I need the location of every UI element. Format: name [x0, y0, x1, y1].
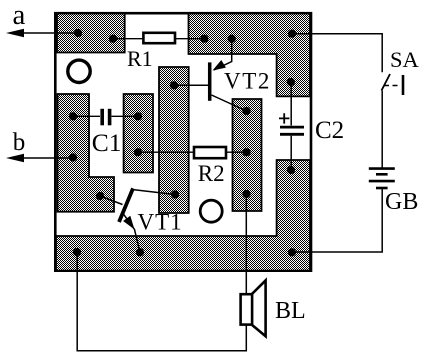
svg-text:C2: C2: [315, 117, 344, 144]
svg-text:GB: GB: [385, 189, 418, 215]
mounting hole lower-center: [200, 200, 222, 222]
wire VT2 collector lead: [212, 95, 247, 111]
arrowhead terminal b: [6, 154, 24, 163]
wire VT2 base lead: [174, 84, 208, 86]
svg-text:b: b: [13, 129, 26, 156]
junction ground pad left: [73, 248, 81, 256]
copper pad: top-left (node a net): [57, 14, 125, 53]
wire C1 left lead: [73, 115, 100, 117]
wire VT1 emitter lead: [122, 212, 140, 253]
wire VT2 emitter lead: [214, 39, 232, 70]
wire board to switch SA: [292, 34, 382, 73]
circuit board outline: [55, 13, 311, 271]
copper pad: left L (node b / C1 left / VT1 base net): [58, 94, 115, 212]
switch SA actuator bar: [402, 75, 405, 95]
battery GB short plate 1: [376, 173, 388, 176]
svg-text:BL: BL: [275, 298, 306, 324]
wire R1 right lead: [175, 38, 204, 40]
junction C2 bottom: [287, 166, 295, 174]
battery GB long plate 1: [369, 167, 395, 170]
wire C2 bottom lead: [290, 136, 292, 170]
junction R1 left: [109, 35, 117, 43]
svg-text:C1: C1: [92, 128, 122, 157]
junction VT2 emitter: [228, 35, 236, 43]
junction C2 top: [287, 78, 295, 86]
transistor VT1 base bar: [119, 188, 133, 222]
wire R2 left lead: [138, 151, 194, 153]
copper pad: C1 right column: [124, 94, 153, 173]
capacitor C2 bottom plate: [280, 133, 304, 136]
resistor R2: [194, 147, 226, 158]
arrowhead VT2 emitter (PNP): [213, 60, 226, 71]
svg-text:VT1: VT1: [138, 210, 183, 235]
mounting hole upper-left: [68, 60, 90, 82]
switch SA blade: [382, 74, 391, 91]
wire VT1 collector lead: [132, 190, 175, 195]
junction node a pad: [74, 29, 82, 37]
arrowhead VT1 emitter (PNP): [123, 216, 134, 230]
junction battery GB return: [288, 248, 296, 256]
arrowhead terminal a: [6, 29, 24, 38]
copper pad: top-right L (supply net to SA): [189, 14, 311, 97]
junction C1 right: [134, 112, 142, 120]
junction R2 left net: [134, 148, 142, 156]
capacitor C2 top plate: [280, 126, 304, 129]
polarity plus sign of C2: [279, 113, 289, 123]
capacitor C1 right plate: [108, 109, 112, 126]
wire SA to battery GB: [381, 91, 383, 168]
battery GB short plate 2: [376, 187, 388, 190]
switch SA dashed link: [384, 85, 400, 87]
svg-text:R1: R1: [127, 46, 153, 71]
junction VT2 collector: [242, 107, 250, 115]
svg-text:VT2: VT2: [224, 69, 271, 94]
junction node b pad: [69, 153, 77, 161]
speaker BL cone: [252, 280, 266, 336]
wire C1 right lead: [112, 115, 139, 117]
junction R1 right: [200, 35, 208, 43]
junction VT1 base: [96, 192, 104, 200]
junction R2 right: [242, 148, 250, 156]
battery GB long plate 2: [369, 180, 395, 183]
wire terminal a: [22, 32, 78, 34]
wire battery GB to board: [292, 189, 382, 252]
wire board to speaker BL: [245, 194, 247, 294]
junction VT1 emitter: [136, 248, 144, 256]
junction SA wire: [288, 30, 296, 38]
wire speaker BL return to board: [77, 252, 246, 351]
wire terminal b: [22, 157, 73, 159]
junction VT1 collector: [171, 190, 179, 198]
wire R1 left lead: [113, 38, 143, 40]
copper pad: center column (VT2 base / VT1 collector net): [159, 67, 189, 213]
wire VT1 base lead: [100, 196, 123, 205]
speaker BL driver box: [241, 294, 253, 324]
resistor R1: [143, 33, 175, 43]
wire C2 top lead: [290, 82, 292, 126]
transistor VT2 base bar: [208, 62, 212, 100]
copper pad: R2 right column (VT2 collector net): [233, 99, 262, 211]
copper pad: bottom L (ground return net to GB): [56, 160, 310, 271]
capacitor C1 left plate: [100, 109, 104, 126]
junction VT2 base: [170, 81, 178, 89]
junction C1 left: [69, 112, 77, 120]
wire R2 right lead: [226, 151, 247, 153]
junction speaker BL feed: [242, 190, 250, 198]
svg-text:a: a: [13, 0, 26, 31]
svg-text:SA: SA: [390, 47, 420, 72]
svg-text:R2: R2: [198, 161, 225, 186]
